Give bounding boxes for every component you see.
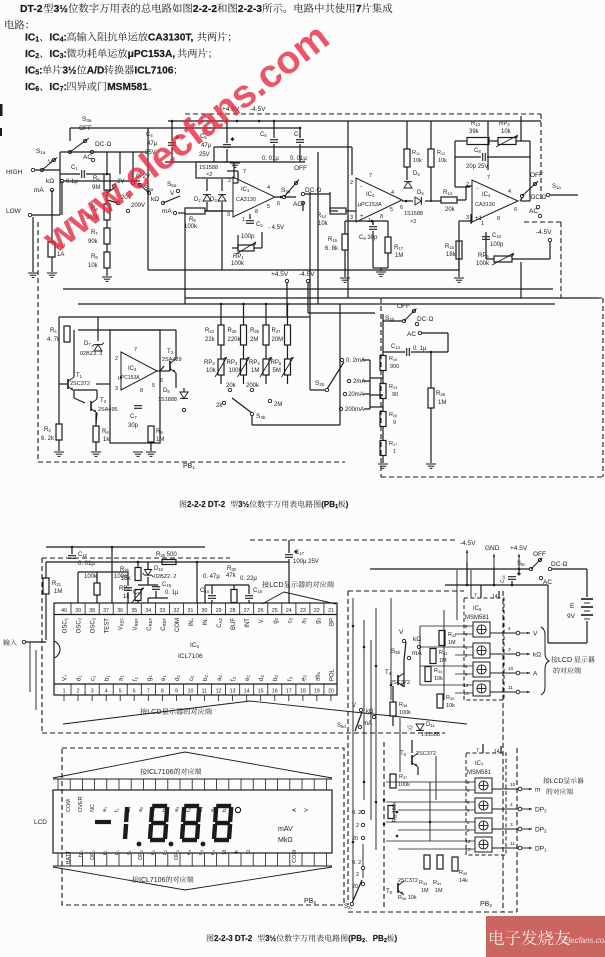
ground C3 [133,451,143,453]
wire RP4 link [265,345,267,359]
wire S3a up [69,128,71,141]
wire IC5 pin9 stub [175,695,177,701]
wire R27 top [287,304,289,325]
capacitor C10 [482,236,490,238]
wire input node up [59,152,61,215]
contact V S5d [359,708,362,711]
pin 12 IC6 [463,683,469,689]
pin label OSC3 IC5 [91,617,97,633]
label C7 [294,132,301,138]
svg-text:TEST: TEST [105,618,111,634]
LCD label top V [304,808,310,812]
svg-text:0. 01μ: 0. 01μ [78,561,95,567]
svg-text:2mA: 2mA [353,379,365,385]
svg-text:POL: POL [329,668,335,681]
svg-text:R34: R34 [434,668,442,674]
label out7 m [535,787,540,794]
svg-text:g1: g1 [147,675,153,681]
svg-text:34: 34 [145,608,151,614]
label R5 [93,176,100,182]
label 200k [246,383,260,389]
wire R12 bottom [430,167,432,202]
minus IC4 [475,216,483,222]
label RP1 [233,254,244,260]
svg-text:R11: R11 [412,150,420,156]
pin 8 IC1 [255,209,258,215]
contact 2M [268,399,271,402]
wire left v133 [132,152,134,181]
transistor T5 [411,755,413,765]
wire taps bus [369,360,371,409]
svg-text:M: M [222,850,228,855]
resistor R25 [241,325,247,345]
svg-text:S1a: S1a [552,184,561,190]
zener D7 [94,345,102,351]
label AC S4a [293,201,302,208]
ground R28 [426,463,436,465]
LCD label top f1 [114,808,120,812]
wire shunt chain4 [382,456,384,463]
svg-text:33: 33 [160,608,166,614]
contact 2k [222,401,225,404]
label R21 value [54,589,62,595]
wire vref pins [137,601,139,603]
svg-text:HIGH: HIGH [6,169,23,176]
svg-text:C7: C7 [130,414,137,420]
label 0.22u [240,576,257,582]
pin 7 IC4 [487,175,490,181]
text LCD correspond 4b [547,788,573,794]
op-amp IC4 [472,180,518,222]
wire T1 emitter down [73,391,75,398]
label C5 [200,134,207,140]
wire rail y562 [46,561,289,563]
svg-text:10k: 10k [501,129,512,135]
junction out7 DP1 [518,846,522,850]
svg-text:2-2-3 DT-2: 2-2-3 DT-2 [214,934,253,943]
svg-text:3: 3 [508,647,511,653]
label range 2b [356,872,359,878]
svg-text:29: 29 [216,608,222,614]
svg-text:11: 11 [202,689,207,695]
svg-text:21: 21 [328,608,334,614]
wire long x310 [309,192,311,390]
svg-text:c2: c2 [189,675,195,681]
wire IC1 out [275,196,296,198]
IC5 top cell divider 24 [281,603,283,615]
pin label g1 IC5 [147,675,153,681]
IC6 dashed box [464,598,504,700]
xor gate IC6 · [473,681,490,696]
wire long x459 [458,241,460,270]
caption figure 2-2-2 [180,500,349,510]
pin 1 IC1 [242,217,245,223]
LCD label top OVER [78,796,84,812]
svg-text:2SC372: 2SC372 [416,751,436,757]
arrow out7 DP1 [522,847,532,849]
label RP5 [271,360,282,366]
svg-text:100p: 100p [490,242,504,248]
IC5 bottom cell divider 13 [225,684,227,695]
svg-text:5: 5 [152,383,155,389]
svg-text:-4.5V: -4.5V [536,229,552,236]
contact AC S4a [301,201,304,204]
IC5 top cell divider 30 [197,603,199,615]
IC5 top cell divider 23 [295,603,297,615]
svg-text:10k: 10k [88,263,99,269]
capacitor C1 [81,170,83,178]
label R3 value [41,436,55,442]
text LCD correspond 3a [551,656,595,664]
svg-text:DC·Ω: DC·Ω [305,187,322,194]
label R34 [434,668,442,674]
svg-text:47k: 47k [226,573,237,579]
label kohm S5d [366,709,374,715]
pin 13 IC6 [463,691,469,697]
label R27 value [272,337,284,343]
svg-text:V: V [352,703,356,709]
svg-text:100k: 100k [231,261,245,267]
watermark logo block bottom right [486,916,605,957]
pin 5 IC2 [390,207,393,213]
wire in2 gate7 DP3 [398,809,475,811]
svg-text:18: 18 [300,689,306,695]
label S5b [391,648,401,655]
potentiometer RP5 [494,256,512,262]
pin 10 out IC6 [508,666,514,672]
svg-text:2-2-2 DT-2: 2-2-2 DT-2 [187,500,226,509]
pin 36 IC5 [117,608,123,614]
svg-text:m: m [535,787,540,794]
svg-text:18k: 18k [446,252,457,258]
pin 1 IC4 [481,221,484,227]
svg-text:2SC372: 2SC372 [70,381,90,387]
resistor R34b [437,855,443,869]
svg-text:8: 8 [497,216,500,222]
label V S5a [170,190,175,197]
pin 3 out IC6 [508,647,511,653]
LCD decimal point 2 [169,842,174,847]
svg-text:20k: 20k [226,383,237,389]
svg-text:C9 30p: C9 30p [359,235,378,241]
svg-text:OVER: OVER [78,796,84,812]
svg-text:100μ 25V: 100μ 25V [293,559,319,565]
wire in2 gate7 DP1 [398,848,475,850]
LCD minus sign [95,820,111,824]
label T1 type [70,381,90,387]
label C6 [260,132,267,138]
IC5 top cell divider 32 [168,603,170,615]
label R5 value [92,185,100,191]
svg-text:CAZ: CAZ [217,618,223,628]
switch S3b label [256,413,266,420]
resistor R23 [380,384,386,399]
transistor T2 [90,401,92,411]
diode D4 [404,182,412,188]
wire bus x436 [435,756,437,800]
wire RP5 link [287,345,289,359]
resistor R4 [64,326,70,342]
label range 0.2 [352,810,361,816]
pin 39 IC5 [75,608,81,614]
svg-text:R23: R23 [389,384,397,390]
label 200mA [345,407,364,413]
wire bus x420 [419,626,421,685]
PB2 dashed v384 [383,742,385,910]
ground shunt [378,463,388,465]
wire IC3 out [157,370,170,372]
svg-text:D2: D2 [194,197,201,203]
svg-text:IC2: IC2 [366,192,375,198]
wire x148 drop [147,128,149,152]
label R15 value [446,252,457,258]
pin 6 IC3 [160,378,163,384]
svg-text:6: 6 [400,205,403,211]
IC3 box [110,330,160,443]
switch S5c [529,567,532,570]
svg-text:- 4.5V: - 4.5V [268,225,284,231]
switch S3a DC contact [90,150,93,153]
svg-text:5M: 5M [273,368,281,374]
svg-text:R9: R9 [156,429,163,435]
label R16 [328,237,338,243]
svg-text:LCD: LCD [147,707,161,716]
pin 2 IC4 [466,182,469,188]
label C5 value [201,143,212,149]
label C14b [391,344,401,350]
svg-text:1M: 1M [395,253,403,259]
pin 4 IC1 [267,185,270,191]
pin 5 IC3 [152,383,155,389]
contact kohm S1a [60,179,63,182]
wire C17 down [288,559,290,603]
svg-text:1: 1 [465,645,468,651]
svg-text:DP2: DP2 [535,827,547,834]
label kohm S5a [151,196,159,203]
svg-text:a3: a3 [174,807,180,812]
ground R3 [54,451,64,453]
svg-text:4: 4 [510,802,513,808]
wire IC5 pin5 stub [119,695,121,701]
LCD label bottom DP1 [90,850,96,860]
svg-text:28: 28 [230,608,236,614]
LCD label top b2 [162,807,168,812]
pin 5 IC7 [467,800,470,806]
svg-text:IC5: IC5 [190,642,200,649]
label mA S1a [34,187,44,194]
svg-text:13: 13 [465,847,471,853]
label R36 [399,702,407,708]
board PB1 dashed outline left top [37,221,39,223]
ground R16 [340,277,350,279]
svg-text:LCD: LCD [550,778,564,785]
svg-text:S5c: S5c [517,561,525,567]
label R7 value [88,239,99,245]
pin label e3 IC5 [301,675,307,681]
junction rail c [171,120,174,123]
junction rail d [226,120,229,123]
svg-text:8: 8 [255,209,258,215]
IC5 top cell divider 38 [84,603,86,615]
arrow -4.5V [466,550,468,562]
svg-text:5: 5 [390,207,393,213]
svg-text:IC4:: IC4: [49,33,67,44]
wire IC5 pin1 stub [63,695,65,701]
wire tap 2V [107,188,114,193]
svg-text:LCD: LCD [269,580,283,589]
wire T1 base [59,383,68,385]
pin label OSC1 IC5 [63,617,69,633]
svg-text:3½: 3½ [54,4,69,15]
wire left verticals [35,650,37,710]
svg-text:IC6: IC6 [473,606,482,612]
svg-text:R4: R4 [50,328,57,334]
wire R12 top [430,121,432,149]
wire HIGH [35,169,60,171]
wire -4.5V stub [549,242,551,259]
label R23 [389,384,397,390]
transistor T3 [169,361,171,371]
wire IC5 pin16 stub [274,695,276,701]
wire pin37 stub [111,547,113,603]
svg-text:32: 32 [174,608,180,614]
svg-text:-: - [476,186,478,192]
label E battery [570,603,575,610]
contact 20V [116,201,119,204]
svg-text:BATT: BATT [66,850,72,864]
pin 11 out IC6 [508,685,513,691]
wire RP5 wire [512,258,550,260]
label -4.5V fig2 [460,540,476,547]
label R16b value [390,364,399,370]
svg-text:mAV: mAV [278,826,293,833]
svg-text:ab4: ab4 [315,671,321,681]
zener D10 [145,570,152,576]
svg-text:100k: 100k [476,261,490,267]
junction pole S5c [518,568,521,571]
svg-text:1S1588: 1S1588 [421,732,440,738]
label C1 [71,165,78,171]
svg-text:ICL7106: ICL7106 [139,877,166,884]
label +4.5V mid [271,271,289,278]
battery E 9V [581,598,593,600]
label C12 value [78,561,95,567]
label IC3 type [118,375,140,381]
LCD label bottom d1 [114,850,120,855]
svg-text:d2: d2 [175,675,181,681]
pin label TEST IC5 [105,618,111,634]
pin label c3 IC5 [287,617,293,623]
svg-text:6: 6 [465,632,468,638]
svg-text:39: 39 [75,608,81,614]
svg-text:R35: R35 [459,870,467,876]
label AC S1b [529,208,538,215]
wire +4.5V rail [168,120,541,122]
resistor R26b [162,560,176,565]
pin label BUF IC5 [231,618,237,630]
label D4 [413,171,420,177]
svg-text:R37: R37 [399,774,407,780]
label R8 value [88,263,99,269]
svg-text:V-: V- [259,617,265,623]
IC5 top cell divider 33 [154,603,156,615]
pin 6 IC2 [400,205,403,211]
resistor R35b [452,857,458,871]
wire bus x430 [429,782,431,841]
wire shunt chain0 [382,321,384,356]
wire C12 top [71,547,73,554]
svg-text:+4.5V: +4.5V [510,545,528,552]
svg-text:4: 4 [105,689,108,695]
label R28 [436,391,446,397]
label IC5 type [178,653,203,660]
wire range bus [362,844,364,878]
label range 20b [352,884,358,890]
svg-text:RP4: RP4 [499,121,510,127]
LCD digit 8 a [150,806,167,840]
label RP4 [249,360,260,366]
pin 3 IC4 [466,215,469,221]
svg-text:RP6: RP6 [119,586,130,592]
pin 5 IC1 [267,204,270,210]
resistor R25b2 [135,568,141,581]
label D7 [84,341,91,347]
label R13 [471,121,481,127]
svg-text:S2b: S2b [315,380,325,387]
pin label VREF IC5 [119,618,125,631]
svg-text:c3: c3 [287,617,293,623]
label C14b value [413,346,427,352]
IC5 bottom cell divider 18 [295,684,297,695]
junction out A [516,671,520,675]
text intro line 5 [25,65,176,77]
label IC2 type [358,202,382,208]
label out V [533,631,538,638]
label R30b [446,695,454,701]
label T2 [100,398,107,404]
wire in1 gate7 DP3 [386,801,475,803]
pin 7 IC6 [474,593,477,599]
svg-text:D7: D7 [84,341,91,347]
wire y585 rail [445,584,548,586]
wire bank to S2b [339,412,341,425]
pin label VREF IC5 [133,618,139,631]
wire out gate V [490,632,516,634]
svg-text:24: 24 [286,608,292,614]
junction r1 [383,799,386,802]
contact AC S5c [539,576,542,579]
svg-text:100k: 100k [184,224,198,230]
IC5 top cell divider 27 [239,603,241,615]
label R15 [445,244,455,250]
svg-text:11: 11 [508,685,513,691]
wire caz group bot [204,585,206,603]
svg-text:6: 6 [133,689,136,695]
LCD label top COM [66,799,72,812]
IC5 bottom cell divider 11 [197,684,199,695]
svg-text:3: 3 [227,212,230,218]
edge artifact 2 [0,128,2,136]
wire osc pins [78,571,128,573]
pin 7 IC5 [147,689,150,695]
wire IC5 pin10 stub [189,695,191,701]
switch S4b OFF [397,303,410,310]
transistor T6 [397,883,399,893]
label LOW [6,208,22,215]
label R26b [156,552,177,558]
wire RP2 link [220,345,222,359]
svg-text:NC: NC [90,804,96,812]
